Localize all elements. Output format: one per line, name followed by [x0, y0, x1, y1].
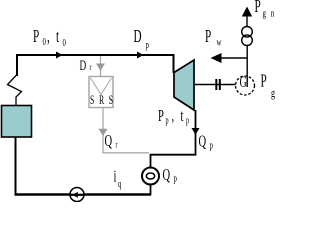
boiler box (teal) [2, 106, 32, 138]
svg-text:t: t [181, 107, 184, 126]
svg-text:P: P [33, 28, 39, 47]
wire: drop into turbine [173, 54, 175, 73]
wire: main steam pipe top [17, 54, 174, 56]
svg-text:p: p [166, 115, 169, 126]
wire: arrow stem above transformer [246, 16, 248, 27]
svg-text:p: p [186, 115, 189, 126]
svg-text:P: P [255, 0, 261, 17]
svg-text:q: q [118, 177, 122, 189]
wire: exhaust elbow to consumer [151, 155, 197, 168]
svg-text:Q: Q [163, 166, 171, 185]
svg-text:0: 0 [43, 35, 47, 47]
gray tap line from top pipe to SRS [100, 56, 102, 76]
generator (dashed circle with G) [236, 73, 255, 95]
pump circle with flow arrow [70, 188, 84, 202]
label P0, t0 [33, 28, 66, 49]
svg-text:P: P [261, 72, 267, 91]
svg-text:p: p [210, 139, 214, 151]
label Pp, tp [158, 107, 189, 126]
svg-text:Q: Q [199, 132, 207, 151]
label Dp [134, 28, 150, 51]
svg-text:G: G [240, 73, 247, 91]
svg-text:i: i [114, 167, 117, 186]
svg-text:P: P [158, 107, 164, 126]
arrowhead on exhaust [192, 128, 200, 135]
svg-text:P: P [205, 28, 211, 47]
svg-text:D: D [134, 28, 142, 47]
label Pgn [255, 0, 275, 19]
label Pw [205, 28, 222, 48]
arrowhead on top pipe (right) [137, 52, 144, 59]
wire: consumer to bottom pipe [150, 185, 152, 196]
wire: down from boiler box [15, 138, 17, 195]
wire: left drop from top pipe [16, 54, 18, 76]
zigzag (boiler coil) [8, 75, 22, 107]
up arrowhead Pgn [242, 7, 252, 17]
label Dr (gray) [80, 57, 92, 74]
Pw branch wire [221, 57, 247, 59]
svg-text:D: D [80, 57, 87, 74]
svg-text:p: p [146, 38, 150, 50]
gray line from SRS down and right [103, 108, 149, 153]
arrowhead on top pipe (left) [56, 52, 63, 59]
coupling bars [216, 79, 220, 90]
SRS box (gray) [89, 77, 118, 108]
svg-text:p: p [174, 172, 178, 184]
gray arrowhead mid [99, 129, 108, 137]
svg-text:g: g [271, 86, 275, 100]
label Qp (lower) [163, 166, 178, 185]
shaft turbine to generator [195, 84, 236, 86]
label iq [114, 167, 122, 189]
wire: turbine exhaust down [195, 110, 197, 155]
svg-text:n: n [271, 7, 275, 19]
wire: generator up to transformer [246, 46, 248, 87]
label Pg [261, 72, 276, 101]
svg-text:Q: Q [105, 132, 113, 151]
svg-text:,: , [172, 107, 175, 126]
svg-text:w: w [217, 36, 222, 48]
svg-text:,: , [47, 28, 50, 47]
turbine (teal trapezoid) [174, 60, 194, 110]
Pw arrowhead (left) [211, 53, 222, 63]
svg-text:SRS: SRS [90, 94, 118, 107]
label Qp (upper) [199, 132, 214, 151]
svg-text:g: g [263, 7, 267, 19]
transformer (two circles) [242, 27, 253, 46]
wire: bottom return pipe [15, 193, 152, 195]
svg-text:0: 0 [63, 36, 67, 48]
heat consumer circle [142, 168, 159, 185]
label Qr (gray) [105, 132, 118, 151]
gray arrowhead into SRS [96, 64, 105, 71]
